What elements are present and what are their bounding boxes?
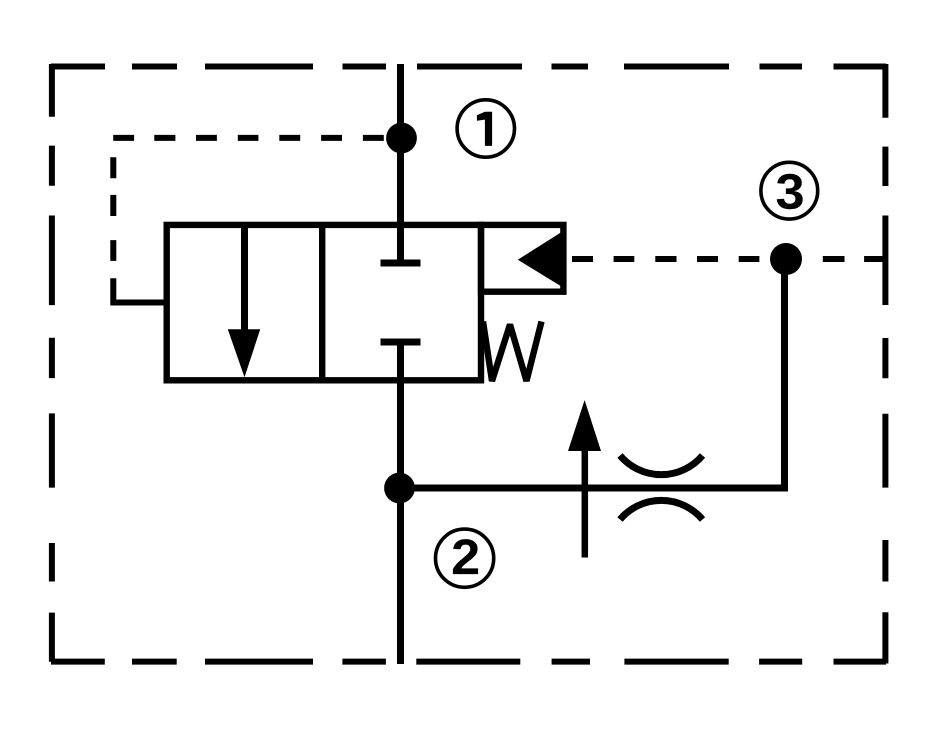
blocked port symbol top (right position) — [381, 260, 421, 267]
valve V1 position divider — [319, 225, 325, 380]
spring return W — [483, 322, 542, 382]
pilot wire to node 3 (dashed) — [572, 256, 885, 262]
port 2 wire (vertical from valve to bottom boundary) — [397, 342, 404, 664]
pilot wire elbow into valve left side (solid) — [113, 278, 166, 302]
flow path arrow in left position (head) — [228, 329, 260, 377]
node 3 junction dot — [770, 243, 802, 275]
port 1 wire (vertical from top boundary to valve) — [397, 64, 404, 263]
port label 1 — [457, 100, 514, 157]
enclosure boundary right side (dashed) — [882, 64, 888, 664]
flow direction arrow (shaft) — [582, 449, 589, 558]
pilot actuator box — [481, 225, 563, 292]
enclosure boundary left side (dashed) — [49, 64, 55, 662]
blocked port symbol bottom (right position) — [381, 339, 421, 346]
wire from node 3 down and left to node 2 — [400, 259, 785, 488]
port label 2 — [436, 529, 494, 587]
orifice upper arc — [620, 456, 703, 475]
node 1 junction dot — [386, 123, 417, 154]
valve V1 body (two-position envelope) — [167, 225, 481, 380]
enclosure boundary top side (dashed) — [51, 64, 886, 70]
pilot wire from node 1 (dashed, left run) — [113, 135, 384, 141]
port label 3 — [761, 162, 818, 219]
flow path arrow in left position (shaft) — [241, 225, 248, 336]
orifice lower arc — [620, 500, 703, 519]
pilot wire from node 1 (dashed, down run) — [110, 157, 116, 261]
pilot actuator triangle — [518, 229, 566, 289]
node 2 junction dot — [384, 473, 415, 504]
flow direction arrow (head) — [568, 400, 601, 451]
enclosure boundary bottom side (dashed) — [51, 659, 886, 665]
